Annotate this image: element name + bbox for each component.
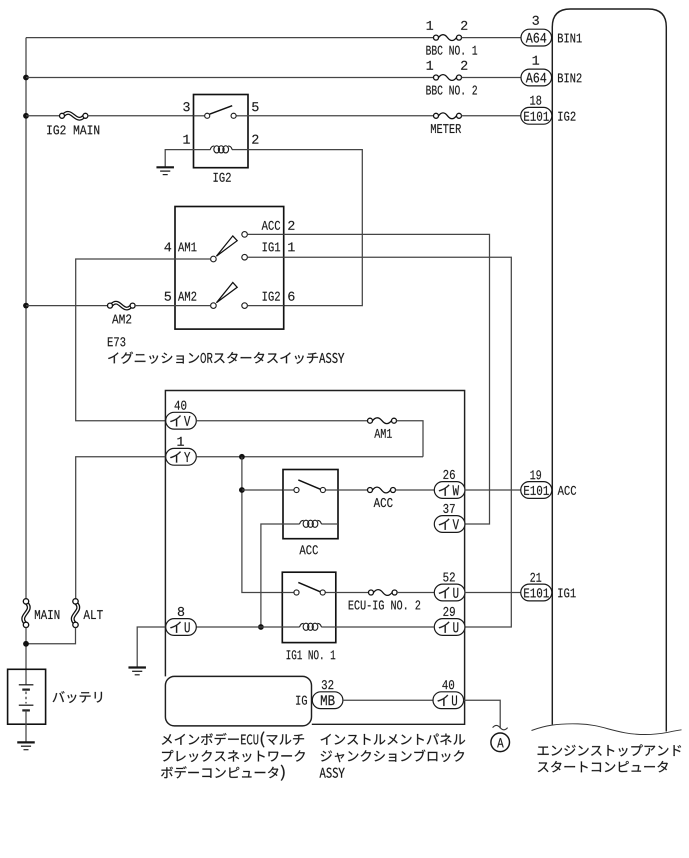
junction block pin 29 oval (iU)	[434, 619, 465, 636]
label IG1 NO.1 (relay name)	[287, 650, 336, 659]
net BIN2	[558, 73, 581, 82]
pin 1 label	[177, 437, 183, 446]
net ACC	[558, 486, 577, 495]
node rail-AM2	[23, 303, 29, 309]
label BBC NO.1	[426, 46, 477, 55]
pin 1 of fuse BBC NO.1	[427, 21, 433, 30]
wire fusible link to relay IG2	[88, 115, 194, 117]
pin 52 label	[443, 572, 455, 581]
relay IG2 pin 1 label	[183, 135, 189, 144]
wire ALT to pin 1	[76, 457, 166, 599]
wire ignition ACC to junction block pin 37	[284, 234, 490, 524]
net BIN1	[558, 34, 582, 43]
wire rail to fuse BBC NO.2	[26, 77, 434, 79]
wire fuse AM1 down to iY row	[396, 421, 423, 457]
ignition switch AM2 contact	[211, 303, 217, 309]
ignition switch E73 box	[175, 207, 284, 330]
ground (battery)	[17, 742, 35, 749]
battery cells	[19, 685, 34, 711]
label engine stop and start computer	[538, 744, 681, 772]
pin 29 label	[443, 607, 454, 616]
fuse BBC NO.1	[434, 35, 462, 41]
wire pin 40 to connector A	[464, 700, 501, 728]
wire fuse METER to connector E101	[461, 115, 521, 117]
wire ignition AM1 to junction block pin 40	[76, 259, 175, 421]
connector E101 pin 21 (IG1)	[521, 584, 552, 601]
label ECU-IG NO.2	[349, 600, 420, 609]
pin 26 label	[443, 470, 455, 479]
pin 40 label (iU)	[442, 680, 454, 689]
wire pin 26 to connector E101 19	[465, 489, 521, 491]
pin 18 label	[530, 96, 541, 105]
relay ACC box	[283, 470, 338, 539]
wire MB to junction block pin 40	[343, 699, 433, 701]
wire ignition IG1 to junction block pin 29	[284, 257, 512, 627]
label MAIN	[35, 610, 59, 619]
ignition switch pin 4 label	[164, 242, 171, 251]
label ignition or starter switch assy	[108, 352, 344, 364]
engine stop and start computer box	[552, 9, 666, 732]
ignition switch AM1 wedge arm	[216, 236, 237, 256]
connector A64 pin 3 (BIN1)	[521, 29, 552, 46]
wire relay ACC coil to branch	[261, 524, 283, 627]
relay IG2 pin 3 label	[183, 102, 189, 111]
node battery junction	[23, 641, 29, 647]
label IG2 (relay name)	[214, 173, 231, 182]
relay ACC contacts	[283, 480, 338, 493]
ignition switch IG2 contact	[242, 303, 248, 309]
wire relay ACC to fuse ACC	[338, 489, 368, 491]
ignition switch IG1 contact	[242, 254, 248, 260]
ignition switch pin 5 label	[165, 292, 171, 301]
pin 40 label	[175, 401, 187, 410]
label E73	[108, 337, 125, 346]
fuse BBC NO.2	[434, 75, 462, 81]
node coil branch	[258, 624, 264, 630]
label instrument panel junction block	[320, 734, 466, 778]
label ACC (relay name)	[299, 545, 318, 554]
wire fuse BBC NO.1 to connector A64	[461, 37, 521, 39]
wire relay IG2 coil pin2 to ignition IG2	[248, 150, 362, 306]
net IG2	[558, 112, 575, 121]
connector A break mark	[493, 725, 508, 729]
ignition switch AM1 label	[178, 242, 196, 251]
junction block pin 8 oval (iU)	[166, 619, 197, 636]
connector E101 pin 19 (ACC)	[521, 482, 552, 499]
wire battery to ground	[25, 710, 27, 742]
wire pin 8 to ground	[137, 627, 165, 668]
instrument panel junction block box	[165, 391, 464, 725]
wire fuse to pin 52	[397, 592, 434, 594]
fusible link ALT	[73, 599, 79, 628]
pin 8 label	[178, 607, 184, 616]
label AM2	[112, 314, 131, 323]
fuse ECU-IG NO.2	[369, 590, 398, 596]
pin 19 label	[530, 470, 541, 479]
pin 32 label	[322, 680, 334, 689]
wire fusible link AM2 to ignition switch	[135, 305, 175, 307]
node branch-ACC relay	[239, 487, 245, 493]
pin 2 of fuse BBC NO.2	[461, 61, 467, 70]
wire iY row	[196, 456, 423, 458]
relay IG2 pin 5 label	[252, 102, 258, 111]
relay IG1 contacts	[282, 582, 336, 595]
label IG2 MAIN	[47, 125, 99, 134]
wire ALT down to junction	[26, 628, 76, 644]
ignition switch pin 2 label	[288, 221, 294, 230]
fusible link AM2	[108, 303, 136, 309]
ground (junction block pin 8)	[128, 668, 146, 675]
label AM1 (fuse)	[374, 429, 392, 438]
label main body ECU	[161, 731, 305, 780]
label ACC (fuse)	[374, 498, 393, 507]
wire relay IG2 coil to ground	[165, 150, 193, 168]
wire pin 52 to connector E101 21	[465, 592, 521, 594]
wire relay IG2 to fuse METER	[248, 115, 434, 117]
node rail-BIN2	[23, 75, 29, 81]
ignition switch ACC label	[262, 221, 281, 230]
ground (relay IG2)	[156, 167, 174, 174]
junction block pin 40 oval (iV)	[166, 412, 197, 429]
pin 1 label	[533, 56, 539, 65]
junction block pin 37 oval (iV)	[434, 516, 465, 533]
relay IG1 NO.1 box	[282, 572, 336, 642]
node rail-IG2MAIN	[23, 113, 29, 119]
ignition switch pin 1 label	[288, 242, 294, 251]
fusible link MAIN	[23, 599, 29, 628]
pin 1 of fuse BBC NO.2	[427, 61, 433, 70]
junction block pin 26 oval (iW)	[434, 482, 465, 499]
wire branch down to relays	[242, 457, 282, 593]
ignition switch AM1 contact	[211, 256, 217, 262]
wire pin 29 to relay IG1 coil	[336, 626, 435, 628]
junction block pin 52 oval (iU)	[434, 584, 465, 601]
wire fuse BBC NO.2 to connector A64	[461, 77, 521, 79]
pin 21 label	[530, 573, 541, 582]
ignition switch AM2 wedge arm	[216, 283, 237, 303]
wire relay IG1 to fuse ECU-IG NO.2	[336, 592, 369, 594]
fuse AM1	[368, 418, 397, 424]
wire pin 8 to relay IG1 coil	[196, 626, 282, 628]
label BBC NO.2	[426, 86, 477, 95]
relay IG2 coil	[194, 146, 249, 153]
battery box	[8, 669, 46, 724]
ignition switch wires to contacts	[175, 234, 284, 305]
ignition switch IG1 label	[263, 242, 280, 251]
pin 37 label	[443, 504, 454, 513]
fuse ACC	[368, 487, 396, 493]
engine computer wavy bottom edge	[532, 724, 682, 735]
relay IG1 coil	[282, 623, 336, 630]
wire rail to fusible link AM2	[26, 305, 108, 307]
ignition switch pin 6 label	[288, 292, 294, 301]
wire pin40 to fuse AM1	[196, 420, 367, 422]
node iY branch	[239, 454, 245, 460]
relay IG2 pin 2 label	[252, 135, 258, 144]
label METER	[431, 124, 461, 133]
junction block pin 1 oval (iY)	[166, 448, 197, 465]
relay IG2 box	[194, 95, 249, 168]
pin 2 of fuse BBC NO.1	[461, 21, 467, 30]
main body ECU box	[165, 676, 311, 726]
ignition switch AM2 label	[178, 292, 196, 301]
connector A64 pin 1 (BIN2)	[521, 69, 552, 86]
fusible link IG2 MAIN	[60, 113, 88, 119]
pin 3 label	[533, 16, 539, 25]
relay ACC coil	[283, 520, 338, 527]
connector A circle	[491, 733, 510, 752]
wire MAIN to battery	[25, 628, 27, 685]
label ALT	[83, 610, 102, 619]
ECU pin 32 oval (MB)	[312, 692, 343, 709]
net IG1	[558, 588, 575, 597]
ignition switch ACC contact	[242, 232, 248, 238]
ignition switch IG2 label	[263, 292, 280, 301]
label IG (ECU pin)	[296, 696, 307, 705]
wire rail to fuse BBC NO.1	[26, 37, 434, 39]
wire branch to ACC relay	[242, 489, 283, 491]
junction block pin 40 oval (iU)	[433, 692, 464, 709]
wire rail to fusible link IG2 MAIN	[26, 115, 60, 117]
connector E101 pin 18 (IG2)	[521, 107, 552, 124]
relay IG2 contacts	[194, 106, 249, 119]
label battery	[53, 691, 102, 703]
wire fuse ACC to pin 26	[395, 489, 434, 491]
wire battery positive rail	[25, 38, 27, 599]
fuse METER	[434, 113, 462, 119]
